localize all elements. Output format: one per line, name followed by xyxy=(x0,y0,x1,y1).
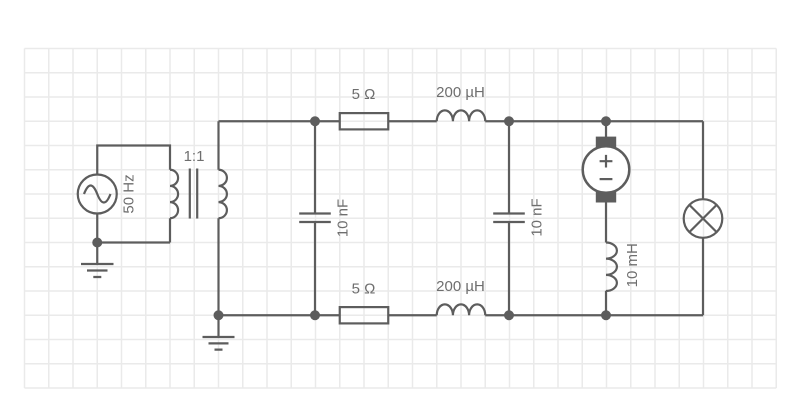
node dot bottom C1 xyxy=(310,310,320,320)
wire right column top xyxy=(702,121,704,199)
motor plus sign xyxy=(600,155,613,168)
lamp LMP1 xyxy=(684,199,723,238)
wire right column bottom xyxy=(702,238,704,315)
node dot bottom C2 xyxy=(504,310,514,320)
motor M1 top brush xyxy=(596,137,616,148)
svg-text:1:1: 1:1 xyxy=(184,148,205,165)
ground G1 xyxy=(81,243,114,278)
inductor L3 xyxy=(606,243,617,292)
transformer core bars xyxy=(190,169,197,219)
capacitor C1 wires xyxy=(314,121,316,315)
capacitor C2 wires xyxy=(508,121,510,315)
AC source V1 xyxy=(78,175,117,214)
wire bottom rail right xyxy=(485,314,703,316)
node dot top C2 xyxy=(504,116,514,126)
wire R1 to L1 xyxy=(388,120,437,122)
capacitor C2 plates xyxy=(493,214,525,223)
wire L3 to bottom rail xyxy=(605,291,607,316)
node dot source bottom xyxy=(92,238,102,248)
svg-text:5 Ω: 5 Ω xyxy=(352,281,376,298)
transformer T1 secondary coil xyxy=(219,170,227,219)
inductor L2 xyxy=(437,304,486,315)
sine wave xyxy=(84,186,111,203)
node dot top motor xyxy=(601,116,611,126)
motor minus sign xyxy=(600,178,613,180)
wire secondary to rails xyxy=(217,121,219,315)
svg-text:200 µH: 200 µH xyxy=(436,278,485,295)
svg-text:5 Ω: 5 Ω xyxy=(352,86,376,103)
wire motor column top xyxy=(605,121,607,137)
svg-text:10 mH: 10 mH xyxy=(624,243,641,287)
lamp X xyxy=(689,205,716,232)
svg-text:50 Hz: 50 Hz xyxy=(120,174,137,213)
node dot top C1 xyxy=(310,116,320,126)
wire top rail left xyxy=(219,120,340,122)
svg-text:200 µH: 200 µH xyxy=(436,84,485,101)
wire bottom rail left xyxy=(219,314,340,316)
wire source bottom stub xyxy=(97,214,170,243)
motor M1 body xyxy=(583,146,630,193)
ground G2 xyxy=(203,315,235,349)
wire R2 to L2 xyxy=(388,314,437,316)
wire top rail right xyxy=(485,120,703,122)
resistor R2 body xyxy=(340,307,389,323)
node dot bottom motor xyxy=(601,310,611,320)
svg-text:10 nF: 10 nF xyxy=(528,198,545,236)
transformer T1 primary coil xyxy=(170,170,178,219)
inductor L1 xyxy=(437,110,486,121)
svg-text:10 nF: 10 nF xyxy=(334,199,351,237)
capacitor C1 plates xyxy=(299,214,331,223)
resistor R1 body xyxy=(340,113,389,129)
node dot secondary bottom xyxy=(214,310,224,320)
wire source top to transformer primary xyxy=(97,146,170,175)
motor M1 bottom brush xyxy=(596,192,616,203)
wire motor to L3 xyxy=(605,203,607,243)
